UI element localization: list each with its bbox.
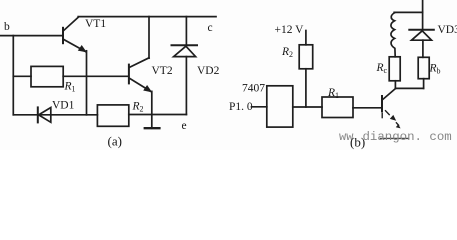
transistor VT2 collector <box>129 58 149 68</box>
resistor R2 (a) <box>97 105 128 126</box>
svg-text:c: c <box>208 22 213 34</box>
P1.0 label <box>229 101 253 113</box>
wire: Rb bottom lead <box>423 79 425 89</box>
svg-text:+12 V: +12 V <box>275 24 305 36</box>
R2 label (a) <box>132 101 144 114</box>
IC 7407 box <box>267 86 293 127</box>
svg-text:b: b <box>4 21 10 33</box>
wire: coil top horizontal <box>394 11 422 13</box>
relay coil <box>391 13 395 57</box>
resistor R1 (b) <box>322 97 353 118</box>
svg-text:VD3: VD3 <box>438 24 457 36</box>
svg-text:7407: 7407 <box>242 83 265 95</box>
diode VD3 triangle <box>412 31 432 40</box>
VT2 label <box>152 65 173 77</box>
wire: R2 down to output wire <box>305 69 307 107</box>
wire: bottom bus left with VD1 <box>13 114 97 116</box>
transistor VT2 emitter with arrow <box>129 78 152 92</box>
svg-text:(b): (b) <box>350 135 365 150</box>
caption (b) <box>350 135 365 150</box>
svg-text:VD2: VD2 <box>197 65 220 77</box>
svg-text:VT1: VT1 <box>85 18 106 30</box>
7407 label <box>242 83 265 95</box>
wire: base input b to VT1 <box>0 35 63 37</box>
dashed current arrow <box>382 111 400 129</box>
resistor Rc <box>389 57 400 81</box>
wire: Rc bottom lead <box>394 81 396 89</box>
wire: top collector rail c <box>78 16 216 18</box>
diode VD3 cathode bar <box>409 29 434 31</box>
svg-text:VT2: VT2 <box>152 65 173 77</box>
svg-text:Rb: Rb <box>429 63 441 76</box>
node e label <box>182 120 187 132</box>
node b label <box>4 21 10 33</box>
transistor Q collector <box>383 88 396 99</box>
ground line (b) <box>381 137 409 139</box>
wire: top supply vertical <box>422 0 424 30</box>
resistor R1 (a) <box>31 66 63 86</box>
wire: bottom bus right <box>129 114 187 116</box>
wire: P1.0 input lead <box>252 106 267 108</box>
diode VD2 top lead <box>185 17 187 45</box>
wire: R1 to VT2 base <box>63 75 128 77</box>
wire: VT2 emitter vertical <box>151 91 153 128</box>
watermark diangon.com <box>363 130 452 144</box>
svg-text:P1. 0: P1. 0 <box>229 101 253 113</box>
R2 label (b) <box>281 46 293 59</box>
Rc label <box>376 62 388 75</box>
wire: 7407 output to R1 <box>293 106 322 108</box>
watermark ww <box>339 130 354 144</box>
wire: R1 to transistor base <box>353 107 381 109</box>
svg-text:VD1: VD1 <box>52 100 75 112</box>
diode VD2 triangle <box>174 46 196 56</box>
transistor VT1 base bar <box>62 28 64 43</box>
node c label <box>208 22 213 34</box>
Rb label <box>429 63 441 76</box>
transistor VT1 collector <box>64 17 79 31</box>
R1 label (a) <box>64 81 76 94</box>
svg-text:R2: R2 <box>281 46 293 59</box>
wire: VT2 collector vertical to rail <box>148 17 150 59</box>
svg-text:(a): (a) <box>108 134 122 149</box>
resistor R2 (b) <box>299 45 313 69</box>
diode VD1 cathode bar <box>37 107 39 122</box>
caption (a) <box>108 134 122 149</box>
svg-text:R1: R1 <box>64 81 76 94</box>
ground bar (a) <box>145 127 160 129</box>
wire: +12V lead <box>305 31 307 45</box>
diode VD2 cathode bar <box>172 44 198 46</box>
svg-text:R1: R1 <box>327 87 339 100</box>
wire: VD3 bottom lead to Rb <box>422 40 424 57</box>
VD2 label <box>197 65 220 77</box>
svg-text:Rc: Rc <box>376 62 388 75</box>
R1 label (b) <box>327 87 339 100</box>
wire: VT1 emitter vertical down <box>86 51 88 115</box>
VT1 label <box>85 18 106 30</box>
wire: left vertical bus <box>12 36 14 115</box>
VD3 label <box>438 24 457 36</box>
svg-text:diangon. com: diangon. com <box>363 130 452 144</box>
diode VD1 triangle <box>39 108 51 123</box>
resistor Rb <box>418 57 429 78</box>
wire: collector node horizontal <box>395 87 423 89</box>
svg-text:e: e <box>182 120 187 132</box>
transistor VT2 base bar <box>128 65 130 84</box>
transistor VT1 emitter with arrow <box>64 39 87 52</box>
diode VD2 bottom lead <box>185 57 187 115</box>
transistor Q base bar <box>381 96 383 111</box>
svg-text:R2: R2 <box>132 101 144 114</box>
+12V supply label <box>275 24 305 36</box>
VD1 label <box>52 100 75 112</box>
wire: R1 left lead <box>13 75 31 77</box>
